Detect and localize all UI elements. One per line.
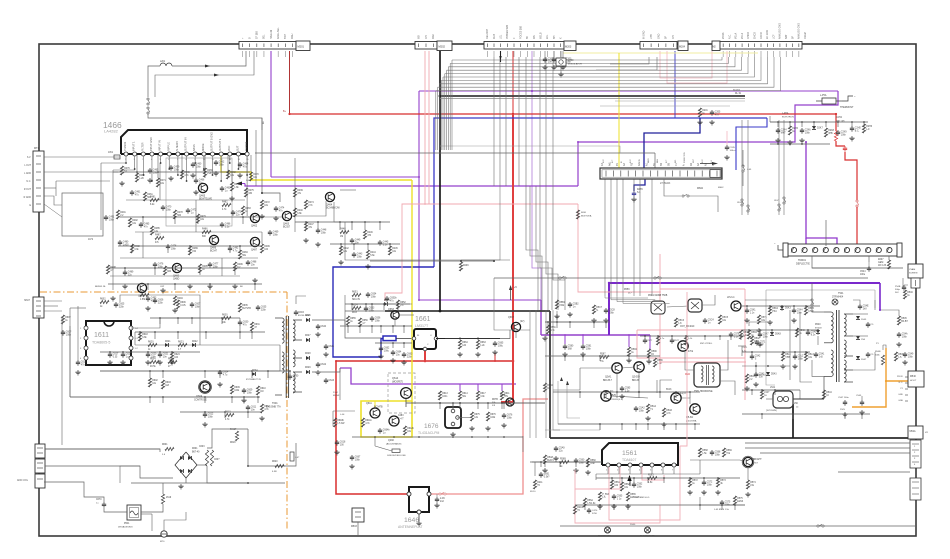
svg-text:R60H: R60H bbox=[168, 359, 174, 361]
ground bbox=[717, 490, 719, 492]
svg-text:R620: R620 bbox=[272, 461, 278, 463]
connector M52A body bbox=[908, 426, 923, 439]
wire yoke return bbox=[812, 360, 824, 376]
svg-text:TOP: TOP bbox=[284, 34, 287, 39]
wire M201 pin stubs bbox=[242, 51, 244, 57]
wire navy net: LT-PACK pin drop bbox=[644, 118, 700, 170]
resistor R60? bbox=[61, 315, 64, 324]
wire pink top-right B bbox=[667, 51, 727, 83]
svg-text:R609: R609 bbox=[234, 387, 240, 389]
svg-text:R470: R470 bbox=[253, 174, 259, 176]
svg-text:R664: R664 bbox=[462, 342, 468, 344]
svg-text:N.: N. bbox=[596, 310, 599, 312]
svg-text:R618: R618 bbox=[142, 334, 148, 336]
svg-text:M203: M203 bbox=[565, 46, 572, 49]
svg-text:R624: R624 bbox=[174, 354, 180, 356]
svg-text:C604: C604 bbox=[223, 372, 229, 374]
svg-text:RIPPLE: RIPPLE bbox=[167, 142, 170, 151]
resistor R624 bbox=[170, 352, 173, 361]
capacitor C607 bbox=[191, 302, 193, 304]
capacitor C653 bbox=[365, 306, 367, 308]
wire purple stub x478 bbox=[477, 384, 479, 391]
svg-text:S.V.: S.V. bbox=[27, 157, 31, 159]
wire pink net: M202 drop B bbox=[428, 51, 430, 204]
svg-text:C547 100n: C547 100n bbox=[838, 397, 849, 399]
svg-text:100n: 100n bbox=[247, 393, 253, 395]
diode D628 secondary bbox=[306, 356, 309, 360]
capacitor C480 bbox=[119, 240, 121, 242]
svg-text:DH: DH bbox=[425, 35, 428, 39]
wire gray mesh fb2 bbox=[756, 362, 766, 375]
ground bbox=[147, 360, 149, 362]
capacitor C245 pink bbox=[726, 145, 728, 147]
capacitor C5C4 bbox=[704, 318, 706, 320]
svg-text:R444: R444 bbox=[370, 252, 376, 254]
capacitor C203 bbox=[562, 57, 564, 59]
wire smps mesh y412 bbox=[180, 411, 262, 413]
ground bbox=[663, 422, 665, 424]
svg-text:D5K3: D5K3 bbox=[785, 308, 791, 310]
ground bbox=[121, 181, 123, 183]
svg-text:M602: M602 bbox=[697, 187, 704, 190]
resistor R2K8 bbox=[824, 128, 827, 137]
ground bbox=[613, 504, 615, 506]
svg-text:L GND: L GND bbox=[24, 173, 31, 175]
ground bbox=[627, 504, 629, 506]
svg-text:R201: R201 bbox=[702, 110, 708, 112]
svg-text:LT PACK: LT PACK bbox=[660, 181, 671, 185]
wire 1661 mesh y343 bbox=[375, 342, 412, 344]
wire audio bus F bbox=[110, 275, 240, 277]
diode D546 bbox=[856, 336, 860, 339]
svg-text:C609: C609 bbox=[247, 390, 253, 392]
svg-text:307B: 307B bbox=[500, 395, 506, 397]
wire 1661 input mesh bbox=[345, 310, 385, 312]
svg-text:VCD3: VCD3 bbox=[722, 32, 725, 39]
wire purple net: stub x583 bbox=[582, 335, 584, 344]
wire flyback mesh y414 bbox=[742, 413, 870, 415]
svg-text:VSAM: VSAM bbox=[909, 268, 915, 271]
svg-text:LPL3-4: LPL3-4 bbox=[727, 297, 735, 299]
resistor R655 bbox=[346, 316, 349, 325]
resistor R565 bbox=[626, 492, 629, 501]
wire gray pair y101 bbox=[615, 100, 745, 102]
resistor R469 bbox=[230, 182, 233, 191]
wire purple net: drop x880 bbox=[879, 283, 881, 310]
capacitor C642 reservoir bbox=[317, 362, 319, 364]
ground bbox=[162, 288, 164, 290]
wire degauss down bbox=[164, 512, 186, 531]
wire gray steps below M204 bbox=[610, 57, 649, 64]
svg-text:Q464: Q464 bbox=[326, 204, 333, 207]
wire HOT collector bbox=[793, 399, 824, 404]
ground bbox=[789, 140, 791, 142]
wire cathode mesh bbox=[596, 473, 660, 475]
svg-text:C541: C541 bbox=[819, 354, 825, 356]
svg-text:MELB: MELB bbox=[539, 32, 542, 39]
capacitor C540 bbox=[807, 330, 809, 332]
resistor R5K6 bbox=[747, 330, 750, 339]
capacitor C476 bbox=[154, 262, 156, 264]
svg-text:RFCO: RFCO bbox=[760, 32, 763, 39]
ground bbox=[699, 120, 701, 122]
junction red rail/drop bbox=[512, 360, 515, 363]
bridge rectifier D601 bbox=[175, 452, 197, 478]
svg-text:C630: C630 bbox=[243, 322, 249, 324]
svg-text:C544: C544 bbox=[860, 271, 866, 273]
svg-text:BILETZKA: BILETZKA bbox=[581, 215, 592, 218]
svg-text:1561: 1561 bbox=[622, 450, 637, 457]
svg-text:(9V): (9V) bbox=[520, 321, 525, 323]
svg-text:100n: 100n bbox=[586, 349, 592, 351]
svg-text:C618: C618 bbox=[340, 442, 346, 444]
wire crt mesh2 bbox=[690, 459, 740, 461]
svg-text:C60?: C60? bbox=[214, 459, 220, 461]
wire crt mesh y478 bbox=[596, 477, 740, 479]
capacitor C488 bbox=[247, 260, 249, 262]
svg-text:R2K8: R2K8 bbox=[828, 130, 834, 132]
svg-text:BY448: BY448 bbox=[815, 328, 822, 330]
svg-text:100n+: 100n+ bbox=[730, 150, 737, 152]
svg-text:Q667: Q667 bbox=[508, 316, 515, 319]
resistor R472 bbox=[260, 200, 263, 209]
wire red net: M203 pin drop x513 bbox=[512, 51, 514, 114]
ground bbox=[471, 426, 473, 428]
resistor R542 bbox=[750, 336, 753, 345]
connector M602 LT PACK body bbox=[600, 168, 722, 179]
svg-text:R5C3: R5C3 bbox=[678, 320, 685, 322]
ground bbox=[777, 138, 779, 140]
transistor Q463 bbox=[282, 211, 291, 220]
svg-text:1.1n: 1.1n bbox=[750, 313, 755, 315]
svg-text:ANALOG GND: ANALOG GND bbox=[779, 23, 782, 39]
svg-text:C5#1: C5#1 bbox=[742, 347, 748, 349]
wire yellow drop to LT-PACK bbox=[618, 53, 620, 170]
wire crt mesh y505 bbox=[575, 504, 745, 506]
ground bbox=[336, 450, 338, 452]
svg-text:D5C1 6206B T50B: D5C1 6206B T50B bbox=[648, 295, 668, 297]
svg-text:D629: D629 bbox=[305, 367, 311, 369]
wire 1661 right mesh bbox=[445, 338, 500, 340]
resistor R612b bbox=[403, 426, 406, 435]
wire audio input run bbox=[44, 187, 56, 189]
svg-text:B.T.: B.T. bbox=[612, 159, 614, 163]
svg-text:C54A: C54A bbox=[902, 333, 908, 336]
svg-text:100u: 100u bbox=[384, 351, 390, 353]
inductor L541 linearity bbox=[773, 391, 793, 408]
wire sec mesh A bbox=[745, 299, 812, 301]
svg-text:P601: P601 bbox=[124, 523, 130, 525]
resistor R807 below TDR01 bbox=[887, 260, 890, 269]
wire M203 pin bundle bbox=[493, 57, 495, 186]
ground bbox=[261, 214, 263, 216]
svg-text:R631: R631 bbox=[254, 324, 260, 326]
wire M203 pin stubs bbox=[486, 51, 488, 57]
capacitor C602 reservoir bbox=[210, 450, 213, 466]
svg-text:1M: 1M bbox=[340, 236, 343, 238]
svg-text:C460: C460 bbox=[196, 164, 202, 166]
wire sec mesh C bbox=[741, 346, 743, 356]
jumper J42 on y278 bbox=[559, 277, 561, 279]
resistor R602 bbox=[100, 300, 109, 303]
svg-text:LA50: LA50 bbox=[568, 59, 574, 62]
svg-text:R565: R565 bbox=[630, 494, 636, 496]
svg-text:100n: 100n bbox=[219, 165, 225, 167]
capacitor C565 bbox=[613, 494, 615, 496]
svg-text:B.C.: B.C. bbox=[630, 158, 632, 163]
wire T581 links bbox=[685, 351, 694, 370]
capacitor C5C8 bbox=[605, 308, 607, 310]
wire dark bus y311 bbox=[385, 310, 550, 312]
svg-text:2619: 2619 bbox=[166, 497, 172, 499]
ground bbox=[403, 360, 405, 362]
capacitor C581 bbox=[582, 344, 584, 346]
svg-text:R472: R472 bbox=[264, 202, 270, 204]
ground bbox=[904, 360, 906, 362]
svg-text:R653: R653 bbox=[352, 292, 358, 294]
wire driver mesh C bbox=[345, 222, 510, 260]
capacitor C572 bbox=[703, 480, 705, 482]
svg-text:A1015/GR(-4.1): A1015/GR(-4.1) bbox=[608, 398, 623, 401]
svg-text:M503: M503 bbox=[351, 526, 357, 528]
capacitor C604 bbox=[219, 370, 221, 372]
wire 1466 long pin drops bbox=[246, 156, 248, 216]
svg-text:BC557: BC557 bbox=[283, 227, 291, 229]
svg-text:R5C5: R5C5 bbox=[722, 317, 729, 319]
wire EW mesh top bbox=[545, 321, 600, 323]
wire red-pink return from 1646 bbox=[429, 399, 548, 494]
svg-text:R474: R474 bbox=[308, 202, 314, 204]
svg-text:HY: HY bbox=[925, 432, 929, 434]
wire smps mesh y352 bbox=[100, 351, 200, 353]
svg-text:M202: M202 bbox=[439, 45, 446, 49]
resistor R468 bbox=[226, 170, 229, 179]
svg-text:2.2u: 2.2u bbox=[225, 227, 230, 229]
svg-text:4R07: 4R07 bbox=[878, 259, 884, 261]
svg-text:C545: C545 bbox=[856, 395, 862, 397]
resistor R60H bbox=[168, 360, 177, 363]
capacitor C605 bbox=[115, 302, 117, 304]
svg-text:DELOOP: DELOOP bbox=[486, 29, 489, 39]
wire purple net: stub x629 bbox=[628, 335, 630, 347]
svg-text:R610: R610 bbox=[260, 388, 266, 390]
junction dots on rails bbox=[418, 176, 420, 178]
resistor R601 fusible bbox=[165, 447, 174, 450]
resistor R586 bbox=[653, 358, 656, 367]
ground bbox=[582, 352, 584, 354]
ground bbox=[219, 382, 221, 384]
svg-text:R482: R482 bbox=[222, 202, 228, 204]
svg-text:R475: R475 bbox=[248, 190, 254, 192]
capacitor C630 bbox=[239, 320, 241, 322]
svg-text:R5L3: R5L3 bbox=[808, 354, 814, 356]
svg-text:DEFLECTIE: DEFLECTIE bbox=[796, 263, 810, 266]
svg-text:C620: C620 bbox=[151, 354, 157, 356]
svg-text:R577: R577 bbox=[674, 340, 680, 342]
capacitor C5B2 bbox=[569, 302, 571, 304]
wire y483 run bbox=[131, 482, 285, 484]
svg-text:(ADJUSTABLE): (ADJUSTABLE) bbox=[386, 443, 402, 446]
ground bbox=[189, 284, 191, 286]
wire mains neutral bbox=[45, 466, 173, 478]
svg-text:C603: C603 bbox=[199, 446, 205, 448]
component F201 fuse arrow B bbox=[214, 74, 219, 77]
diode D653 bbox=[384, 302, 387, 306]
svg-text:100n: 100n bbox=[371, 297, 377, 299]
svg-text:BO: BO bbox=[675, 160, 677, 163]
wire orange heater return bbox=[852, 381, 886, 407]
resistor R5C7 bbox=[592, 305, 595, 314]
ground bbox=[195, 190, 197, 192]
wire return rail A bbox=[570, 424, 600, 430]
svg-text:C654: C654 bbox=[371, 294, 377, 296]
wire secondary rail 141V bbox=[312, 320, 381, 338]
wire blue net: bottom run to 1661 bbox=[333, 267, 434, 357]
transistor Q667 top right bbox=[511, 322, 520, 331]
capacitor C546 bbox=[867, 322, 869, 324]
svg-text:C5K1: C5K1 bbox=[750, 310, 756, 312]
svg-text:R602: R602 bbox=[152, 380, 158, 382]
svg-text:100n: 100n bbox=[908, 357, 914, 359]
ground bbox=[112, 296, 114, 298]
ground bbox=[147, 306, 149, 308]
ground bbox=[711, 120, 713, 122]
svg-text:(MOSFET): (MOSFET) bbox=[392, 382, 403, 384]
wire y261 resistor bbox=[459, 262, 462, 271]
resistor R491 bbox=[116, 210, 119, 219]
svg-text:R439: R439 bbox=[297, 190, 303, 192]
capacitor C664b bbox=[379, 428, 381, 430]
capacitor C5K7 bbox=[759, 332, 761, 334]
wire snubber link bbox=[296, 296, 306, 304]
junction orange bbox=[885, 380, 887, 382]
capacitor C489 bbox=[124, 270, 126, 272]
wire tdr mesh y268 bbox=[812, 267, 903, 269]
wire pink long drop A bbox=[686, 292, 688, 384]
wire driver collector mesh bbox=[660, 380, 672, 392]
svg-text:100n: 100n bbox=[174, 170, 180, 172]
svg-text:R486: R486 bbox=[202, 229, 208, 231]
svg-text:100n: 100n bbox=[171, 249, 177, 251]
resistor R656 bbox=[358, 318, 361, 327]
svg-text:Q462: Q462 bbox=[251, 225, 258, 228]
transformer T541 primary bbox=[831, 312, 833, 343]
resistor R440 bbox=[293, 208, 296, 217]
resistor R478 bbox=[173, 210, 176, 219]
resistor R481 bbox=[150, 198, 159, 201]
resistor R587 bbox=[600, 355, 609, 358]
svg-text:100n: 100n bbox=[579, 463, 585, 465]
junction red 1661 bbox=[424, 360, 427, 363]
resistor R477 bbox=[163, 266, 166, 275]
svg-text:D545: D545 bbox=[861, 319, 867, 321]
op-amp U1611 pin circles left bbox=[84, 326, 88, 330]
svg-text:R584: R584 bbox=[547, 385, 553, 387]
resistor R445 bbox=[388, 246, 391, 255]
svg-text:R601: R601 bbox=[162, 444, 168, 446]
resistor R568 bbox=[698, 448, 701, 457]
wire purple net: stub x565 bbox=[564, 335, 566, 344]
svg-text:D621: D621 bbox=[165, 341, 171, 343]
wire purple net: right elbow bbox=[578, 91, 838, 142]
svg-text:N5T: N5T bbox=[693, 158, 695, 163]
resistor R5K5 bbox=[804, 306, 807, 315]
ground bbox=[261, 416, 263, 418]
capacitor C445 bbox=[379, 240, 381, 242]
capacitor C670 degauss bbox=[103, 502, 105, 504]
wire 1561 left rail bbox=[530, 461, 602, 463]
resistor R664 bbox=[458, 340, 461, 349]
wire audio bus A bbox=[101, 162, 126, 164]
svg-text:C5A3: C5A3 bbox=[639, 407, 645, 410]
wire crt right mesh bbox=[660, 473, 700, 475]
resistor R590 bbox=[647, 349, 650, 358]
wire degauss riser bbox=[162, 483, 164, 494]
wire resistor bottoms y403 bbox=[406, 402, 545, 404]
svg-text:C585: C585 bbox=[625, 388, 631, 390]
svg-text:C617: C617 bbox=[113, 354, 119, 356]
wire smps mesh y318 bbox=[150, 317, 240, 319]
resistor R594 bbox=[627, 347, 630, 356]
wire SMPS feedback loop bbox=[120, 295, 200, 318]
svg-text:B.C.: B.C. bbox=[855, 131, 860, 133]
resistor R545 bbox=[897, 316, 900, 325]
wire U1661 output bbox=[436, 338, 460, 340]
svg-text:C561: C561 bbox=[544, 474, 550, 476]
svg-text:HOOT: HOOT bbox=[910, 380, 917, 382]
svg-text:R54B: R54B bbox=[875, 351, 881, 353]
resistor R470 bbox=[249, 172, 252, 181]
transformer T541 core bbox=[836, 310, 838, 382]
svg-text:C667: C667 bbox=[355, 457, 361, 459]
svg-text:R5A8: R5A8 bbox=[547, 456, 553, 459]
svg-text:R478: R478 bbox=[177, 212, 183, 214]
svg-text:C5B2: C5B2 bbox=[573, 304, 579, 306]
ground bbox=[452, 432, 454, 434]
resistor R442 bbox=[339, 246, 342, 255]
svg-text:C474: C474 bbox=[279, 208, 285, 210]
wire pink net: drop x578 bbox=[578, 204, 660, 292]
svg-text:L-F: L-F bbox=[866, 129, 870, 131]
capacitor C2K6 bbox=[801, 128, 803, 130]
svg-text:FRAM: FRAM bbox=[804, 32, 807, 39]
wire U1466 pin drops bbox=[125, 156, 127, 163]
ground bbox=[569, 312, 571, 314]
svg-text:100k: 100k bbox=[234, 390, 240, 392]
svg-text:PS4: PS4 bbox=[772, 311, 777, 313]
svg-text:OUTPUT 1: OUTPUT 1 bbox=[219, 138, 222, 151]
wire supply drop bbox=[148, 114, 262, 130]
resistor R578 bbox=[739, 330, 742, 339]
resistor R675 bbox=[470, 412, 473, 421]
wire M205 fanout verticals bbox=[451, 60, 453, 150]
svg-text:D622: D622 bbox=[192, 341, 198, 343]
svg-text:C6P: C6P bbox=[160, 286, 165, 288]
capacitor C562 bbox=[633, 482, 635, 484]
wire pink net: y289 run bbox=[660, 288, 745, 290]
resistor R496 bbox=[233, 262, 236, 271]
op-amp U1611 SMPS controller TDA8380 body bbox=[86, 321, 131, 365]
capacitor C465 bbox=[149, 168, 151, 170]
svg-text:KNT-V22R-L: KNT-V22R-L bbox=[700, 343, 713, 345]
svg-text:C443: C443 bbox=[357, 254, 363, 256]
svg-text:EM13: EM13 bbox=[737, 501, 744, 503]
capacitor C474 bbox=[275, 206, 277, 208]
wire earth drop bbox=[141, 513, 152, 515]
wire purple net: riser x609 bbox=[608, 284, 610, 336]
component J617 link bbox=[290, 452, 294, 461]
svg-text:C549: C549 bbox=[908, 354, 914, 356]
